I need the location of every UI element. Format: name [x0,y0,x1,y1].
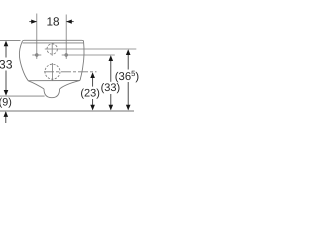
svg-text:(33): (33) [101,82,121,94]
svg-text:(365): (365) [115,69,140,83]
fixing hole left [36,54,39,57]
dim 18 arrow left [29,21,36,23]
ceramic underside edge line [28,80,80,82]
svg-text:18: 18 [46,15,60,29]
svg-text:(9): (9) [0,96,12,108]
dim (23) vertical line [92,74,94,87]
fixing hole right, centerline extends right as (33) reference [65,54,68,57]
bowl lower bulge [44,89,60,98]
ceramic bottom extension line for (9) [0,95,45,97]
inlet vertical crosshair [51,43,53,56]
ceramic right edge [80,41,84,81]
right hole centerline up to 18 dim [65,15,67,59]
rim inner line [23,42,84,44]
drain vertical crosshair [52,63,54,81]
water inlet circle [47,44,57,54]
svg-text:33: 33 [0,57,13,71]
lower right slope [60,80,80,89]
drain circle [45,64,60,79]
left extension line at rim top for 33 [0,39,21,41]
ceramic body fill (front view silhouette) [19,41,84,98]
svg-text:(23): (23) [80,88,100,100]
dim 33 vertical line [5,42,7,58]
lower left slope [28,81,44,89]
floor line [0,110,134,112]
dim (9) arrow below floor [5,112,7,123]
dim (33) vertical line [110,57,112,82]
rim top edge [23,39,84,42]
dim (36.5) vertical line [127,51,129,70]
drain horizontal centerline extends right as (23) reference [44,71,97,73]
ceramic left edge [19,41,28,81]
dim 18 arrow right [67,21,74,23]
left hole centerline up to 18 dim [36,14,38,59]
inlet horizontal centerline extends right as (36.5) reference [45,48,137,50]
